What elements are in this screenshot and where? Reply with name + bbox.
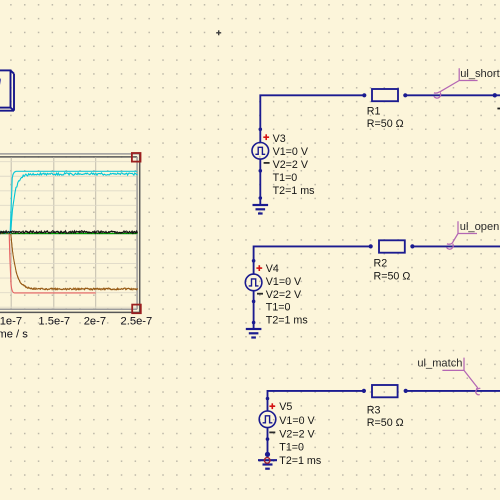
voltage source V4 [245,274,262,291]
voltage source V5 [259,411,276,428]
svg-text:T1=0: T1=0 [273,172,298,184]
ground 1 [253,204,269,206]
node dots V3 pins [259,128,263,132]
pin dots R3 [362,389,366,393]
wire net3 right [406,390,500,392]
svg-text:V2=2 V: V2=2 V [273,159,309,171]
trace v(ul_open) ideal (cyan) [0,171,137,232]
svg-text:1e-7: 1e-7 [0,316,22,328]
diagram frame [0,154,140,313]
svg-text:R=50 Ω: R=50 Ω [374,270,411,282]
svg-text:1.5e-7: 1.5e-7 [38,316,70,328]
open marker on ground 3 [264,458,270,464]
svg-text:T1=0: T1=0 [279,442,304,454]
svg-text:R3: R3 [367,405,381,417]
svg-text:T1=0: T1=0 [266,302,291,314]
node dots V5 pins [266,397,270,401]
trace v(ul_match) ideal (green) [0,233,137,235]
pin dots R1 [362,93,366,97]
trace measured match (black noisy) [0,231,138,234]
svg-text:V2=2 V: V2=2 V [266,289,302,301]
svg-text:R=50 Ω: R=50 Ω [367,417,404,429]
svg-text:T2=1 ms: T2=1 ms [279,455,321,467]
label ul_open [452,221,477,243]
svg-text:R2: R2 [374,258,388,270]
svg-text:n: n [0,74,2,88]
node dot wire1 end [493,93,497,97]
pin dots R2 [369,244,373,248]
svg-text:R1: R1 [367,105,381,117]
svg-text:T2=1 ms: T2=1 ms [266,315,308,327]
diagram x-grid [11,157,96,308]
selection handle top-right [132,153,141,162]
svg-text:time / s: time / s [0,329,28,341]
svg-text:V1=0 V: V1=0 V [266,276,302,288]
cursor cross [216,30,221,35]
svg-text:R=50 Ω: R=50 Ω [367,118,404,130]
transient simulation box [0,70,14,110]
ground 3 [258,459,277,461]
ground 2 [246,328,262,330]
wire net3 top [268,391,364,411]
wire net1 top [260,95,364,142]
svg-text:2e-7: 2e-7 [84,316,106,328]
resistor R1 [372,89,398,101]
resistor R2 [379,240,405,252]
label ul_short [440,68,478,92]
trace v(ul_short) ideal (red) [0,233,96,293]
svg-text:ul_short: ul_short [460,68,499,80]
wire net1 right [405,94,500,96]
svg-text:V3: V3 [273,133,286,145]
svg-text:T2=1 ms: T2=1 ms [273,185,315,197]
junction node [265,452,270,457]
fragment at right edge [497,108,500,110]
svg-text:V2=2 V: V2=2 V [279,428,315,440]
svg-text:2.5e-7: 2.5e-7 [121,316,153,328]
diagram y-grid [0,162,136,308]
trace measured short (orange noisy) [0,232,138,290]
resistor R3 [372,385,398,397]
svg-text:V1=0 V: V1=0 V [273,146,309,158]
svg-text:V1=0 V: V1=0 V [279,415,315,427]
svg-text:ul_open: ul_open [460,221,499,233]
selection handle bottom-right [132,305,141,314]
trace measured open (cyan noisy) [0,173,138,234]
svg-text:V5: V5 [279,401,292,413]
svg-text:ul_match: ul_match [417,358,462,370]
voltage source V3 [252,143,269,160]
node dots V4 pins [252,259,256,263]
label ul_match [442,358,478,389]
wire net2 top [254,246,371,274]
wire net2 right [412,245,500,247]
svg-text:V4: V4 [266,263,279,275]
